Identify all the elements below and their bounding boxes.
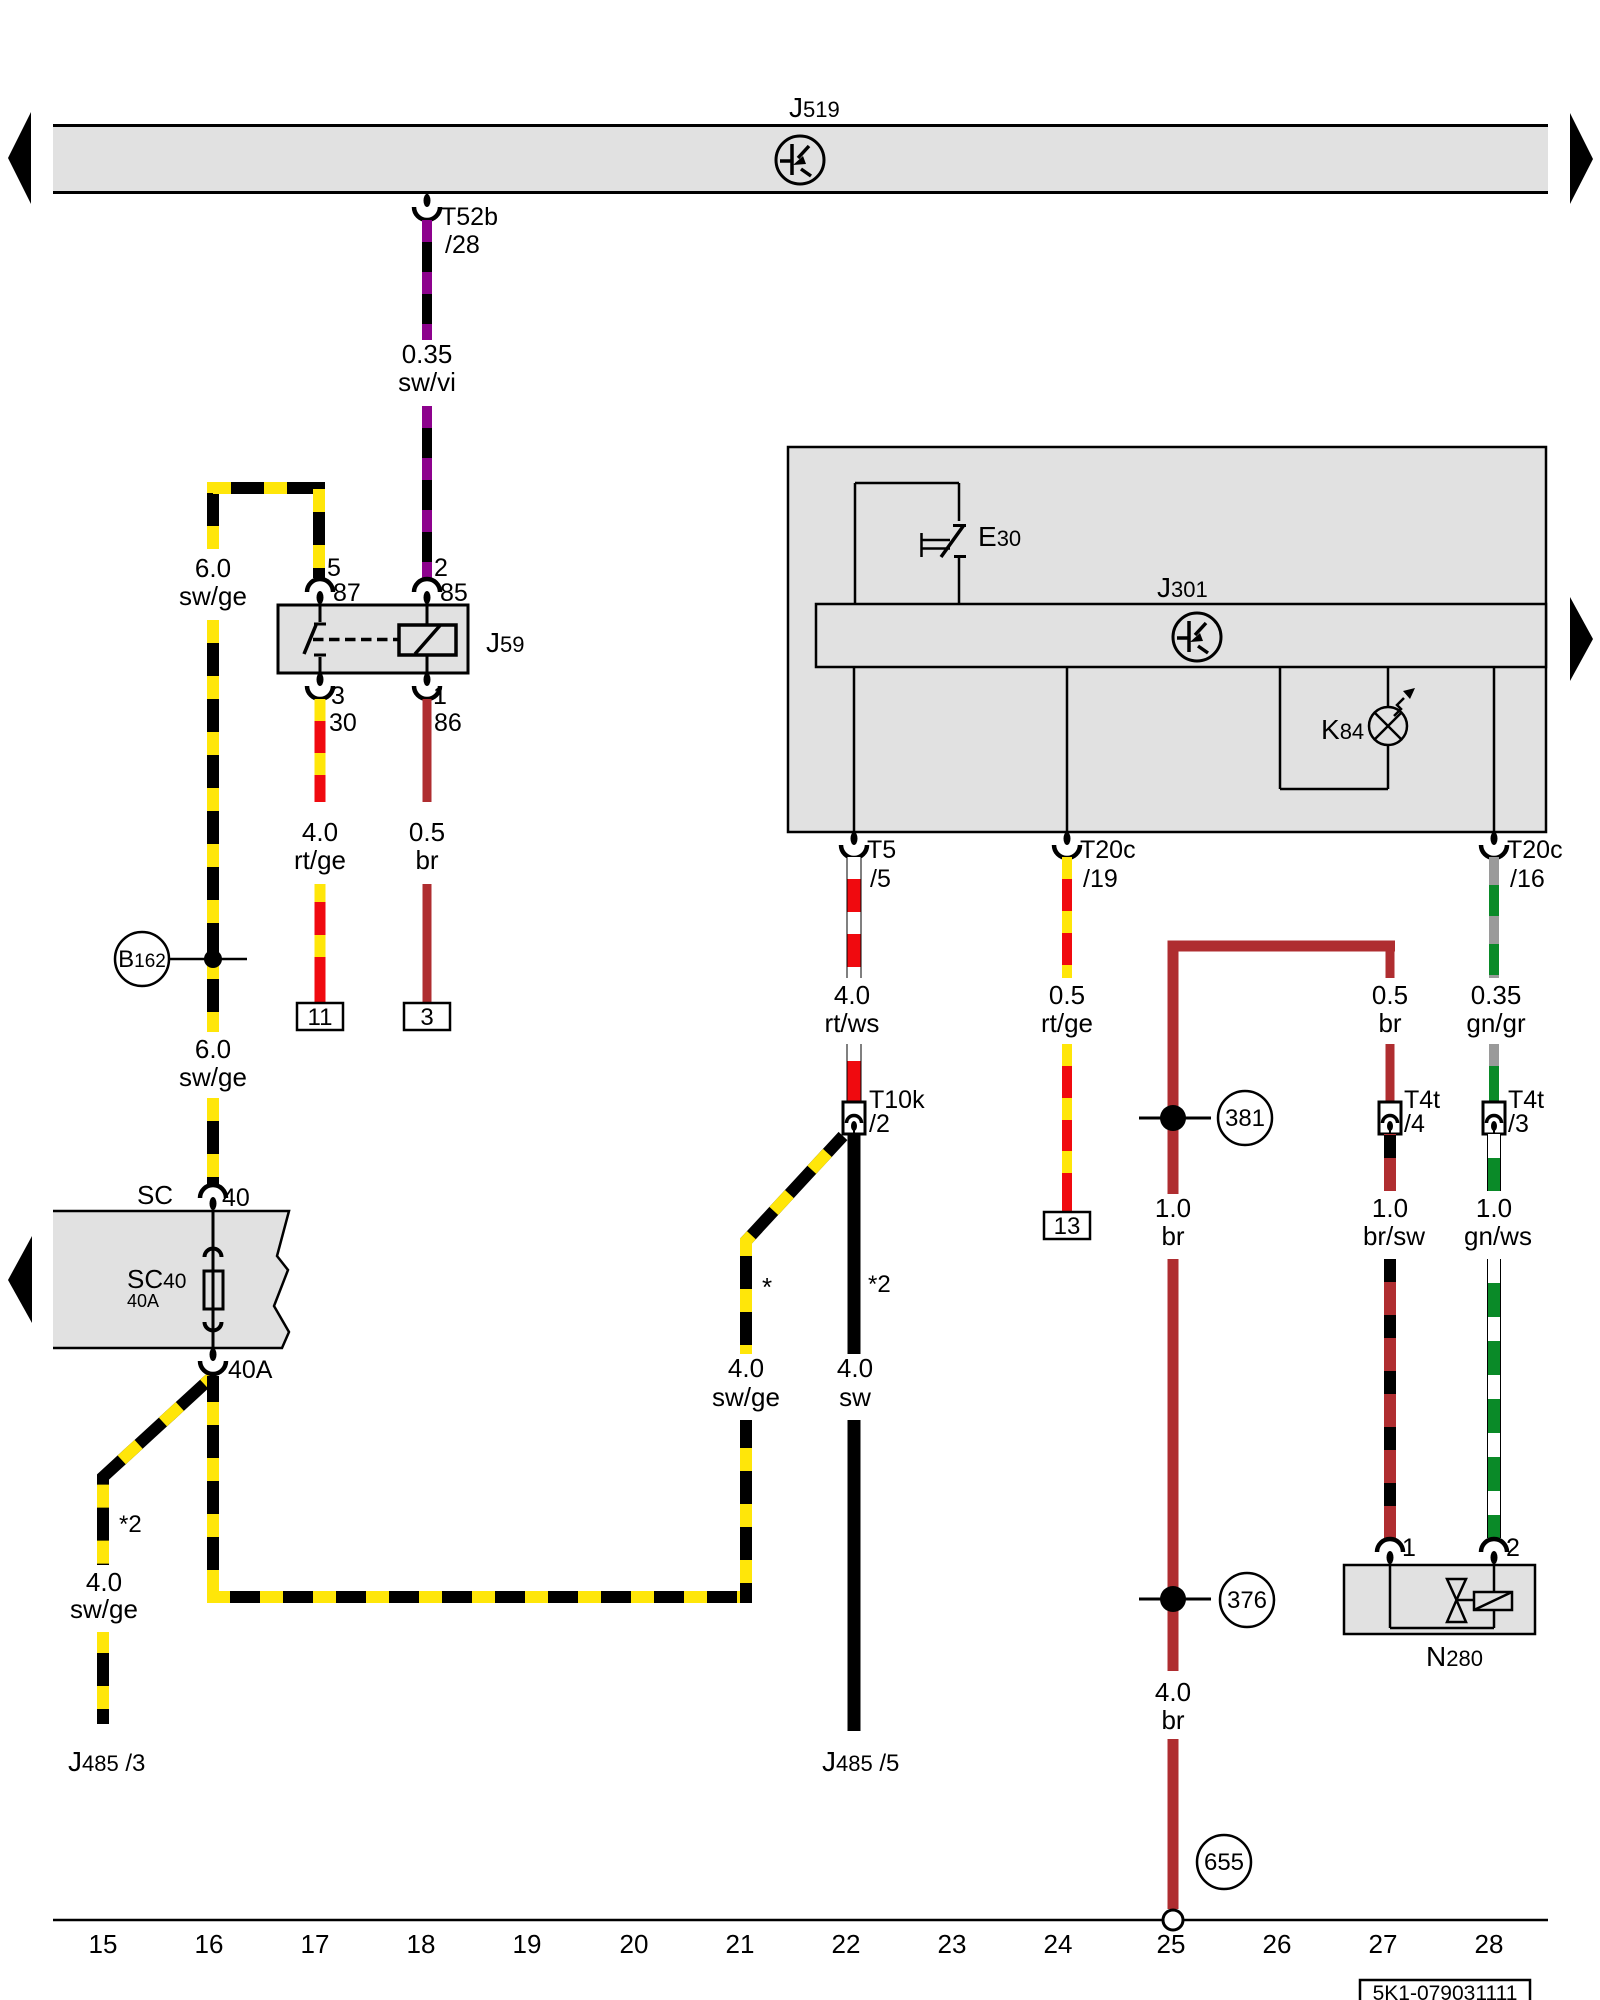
- svg-text:27: 27: [1369, 1929, 1398, 1959]
- svg-text:20: 20: [620, 1929, 649, 1959]
- svg-text:J485 /5: J485 /5: [822, 1746, 899, 1777]
- svg-text:3: 3: [420, 1004, 433, 1031]
- svg-text:/16: /16: [1510, 865, 1545, 893]
- svg-text:24: 24: [1044, 1929, 1073, 1959]
- svg-text:J485 /3: J485 /3: [68, 1746, 145, 1777]
- svg-text:T20c: T20c: [1507, 836, 1563, 864]
- svg-text:0.35: 0.35: [402, 339, 453, 369]
- svg-text:K84: K84: [1321, 714, 1364, 745]
- svg-text:br/sw: br/sw: [1363, 1221, 1425, 1251]
- svg-text:/19: /19: [1083, 865, 1118, 893]
- svg-text:17: 17: [301, 1929, 330, 1959]
- svg-text:J59: J59: [486, 627, 524, 658]
- svg-text:30: 30: [329, 709, 357, 737]
- svg-text:28: 28: [1475, 1929, 1504, 1959]
- svg-text:1: 1: [1402, 1534, 1416, 1562]
- svg-text:0.35: 0.35: [1471, 980, 1522, 1010]
- svg-text:T5: T5: [867, 836, 896, 864]
- svg-text:1.0: 1.0: [1372, 1193, 1408, 1223]
- svg-text:21: 21: [726, 1929, 755, 1959]
- svg-text:381: 381: [1225, 1105, 1265, 1132]
- svg-text:J519: J519: [789, 92, 840, 123]
- svg-text:sw: sw: [839, 1382, 871, 1412]
- svg-text:br: br: [1378, 1008, 1401, 1038]
- svg-text:rt/ge: rt/ge: [294, 845, 346, 875]
- svg-text:2: 2: [1506, 1534, 1520, 1562]
- svg-text:15: 15: [89, 1929, 118, 1959]
- svg-text:/4: /4: [1404, 1110, 1425, 1138]
- svg-text:N280: N280: [1426, 1641, 1483, 1672]
- svg-text:*2: *2: [119, 1511, 142, 1538]
- svg-text:sw/ge: sw/ge: [70, 1594, 138, 1624]
- svg-text:T20c: T20c: [1080, 836, 1136, 864]
- svg-text:4.0: 4.0: [834, 980, 870, 1010]
- svg-text:/5: /5: [870, 865, 891, 893]
- svg-text:/3: /3: [1508, 1110, 1529, 1138]
- svg-text:sw/ge: sw/ge: [179, 1062, 247, 1092]
- svg-text:1.0: 1.0: [1476, 1193, 1512, 1223]
- svg-text:br: br: [1161, 1221, 1184, 1251]
- svg-text:1.0: 1.0: [1155, 1193, 1191, 1223]
- svg-text:B162: B162: [118, 946, 166, 973]
- svg-text:E30: E30: [978, 521, 1021, 552]
- svg-text:16: 16: [195, 1929, 224, 1959]
- svg-text:40A: 40A: [228, 1356, 273, 1384]
- svg-text:86: 86: [434, 709, 462, 737]
- svg-text:25: 25: [1157, 1929, 1186, 1959]
- svg-text:0.5: 0.5: [1372, 980, 1408, 1010]
- svg-text:1: 1: [433, 682, 447, 710]
- svg-text:4.0: 4.0: [86, 1567, 122, 1597]
- svg-text:*2: *2: [868, 1271, 891, 1298]
- svg-text:sw/ge: sw/ge: [179, 581, 247, 611]
- svg-text:11: 11: [308, 1004, 333, 1031]
- svg-text:40: 40: [222, 1184, 250, 1212]
- svg-text:/28: /28: [445, 231, 480, 259]
- svg-text:/2: /2: [869, 1110, 890, 1138]
- svg-text:6.0: 6.0: [195, 553, 231, 583]
- svg-text:376: 376: [1227, 1587, 1267, 1614]
- svg-text:J301: J301: [1157, 572, 1208, 603]
- svg-text:85: 85: [440, 579, 468, 607]
- svg-text:rt/ws: rt/ws: [825, 1008, 880, 1038]
- svg-text:gn/ws: gn/ws: [1464, 1221, 1532, 1251]
- svg-text:13: 13: [1054, 1213, 1081, 1240]
- svg-text:4.0: 4.0: [302, 817, 338, 847]
- svg-text:T52b: T52b: [441, 203, 498, 231]
- svg-text:5K1-079031111: 5K1-079031111: [1373, 1982, 1518, 2000]
- svg-text:gn/gr: gn/gr: [1466, 1008, 1526, 1038]
- svg-text:26: 26: [1263, 1929, 1292, 1959]
- svg-text:40A: 40A: [127, 1291, 159, 1311]
- svg-text:sw/ge: sw/ge: [712, 1382, 780, 1412]
- svg-text:SC: SC: [137, 1180, 173, 1210]
- svg-text:5: 5: [327, 554, 341, 582]
- svg-text:sw/vi: sw/vi: [398, 367, 456, 397]
- svg-text:655: 655: [1204, 1849, 1244, 1876]
- svg-text:3: 3: [331, 682, 345, 710]
- svg-text:22: 22: [832, 1929, 861, 1959]
- svg-text:4.0: 4.0: [728, 1353, 764, 1383]
- svg-text:br: br: [415, 845, 438, 875]
- svg-text:br: br: [1161, 1705, 1184, 1735]
- svg-text:4.0: 4.0: [1155, 1677, 1191, 1707]
- svg-text:4.0: 4.0: [837, 1353, 873, 1383]
- svg-text:2: 2: [434, 554, 448, 582]
- svg-text:rt/ge: rt/ge: [1041, 1008, 1093, 1038]
- svg-text:0.5: 0.5: [409, 817, 445, 847]
- svg-text:6.0: 6.0: [195, 1034, 231, 1064]
- svg-text:*: *: [762, 1272, 772, 1302]
- svg-text:19: 19: [513, 1929, 542, 1959]
- svg-text:23: 23: [938, 1929, 967, 1959]
- svg-text:87: 87: [333, 579, 361, 607]
- svg-text:0.5: 0.5: [1049, 980, 1085, 1010]
- svg-text:18: 18: [407, 1929, 436, 1959]
